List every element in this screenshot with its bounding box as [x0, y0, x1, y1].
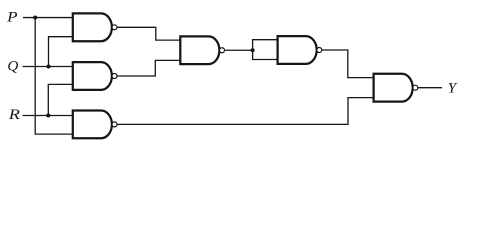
wire U2 output to U4 lower input: [117, 60, 180, 76]
nand gate U2 (inputs Q,R): [73, 62, 112, 90]
node A junction: [251, 48, 255, 52]
nand gate U1 (inputs P,Q): [73, 13, 112, 41]
nand gate U5 (inverter): [278, 36, 317, 64]
nand gate U3 (inputs R,P): [73, 111, 112, 139]
wire U4 output to node A: [225, 49, 253, 51]
bubble U4 output: [220, 48, 225, 53]
wire R up to gate U2 lower input: [48, 84, 73, 115]
wire Q lead-in: [23, 66, 73, 68]
svg-text:P: P: [6, 10, 18, 26]
bubble U3 output: [112, 122, 117, 127]
bubble U1 output: [112, 25, 117, 30]
bubble U5 output: [317, 48, 322, 53]
wire U3 output to U6 lower input: [117, 98, 374, 125]
wire P lead-in: [23, 17, 73, 19]
nand gate U4: [180, 36, 219, 64]
wire Q up to gate U1 lower input: [49, 37, 73, 67]
wire Y output: [418, 87, 442, 89]
svg-text:Q: Q: [7, 59, 18, 75]
bubble U6 output: [413, 85, 418, 90]
node Q junction: [46, 64, 50, 68]
wire R lead-in: [23, 115, 73, 117]
nand gate U6 (output): [374, 74, 413, 102]
node P junction: [33, 15, 37, 19]
node R junction: [46, 113, 50, 117]
wire U1 output to U4 upper input: [117, 27, 180, 40]
wire U5 output to U6 upper input: [322, 50, 374, 78]
wire node A to both U5 inputs: [253, 40, 278, 60]
wire P down to gate U3 lower input: [35, 18, 73, 135]
svg-text:Y: Y: [448, 81, 458, 97]
svg-text:R: R: [8, 107, 20, 123]
bubble U2 output: [112, 74, 117, 79]
